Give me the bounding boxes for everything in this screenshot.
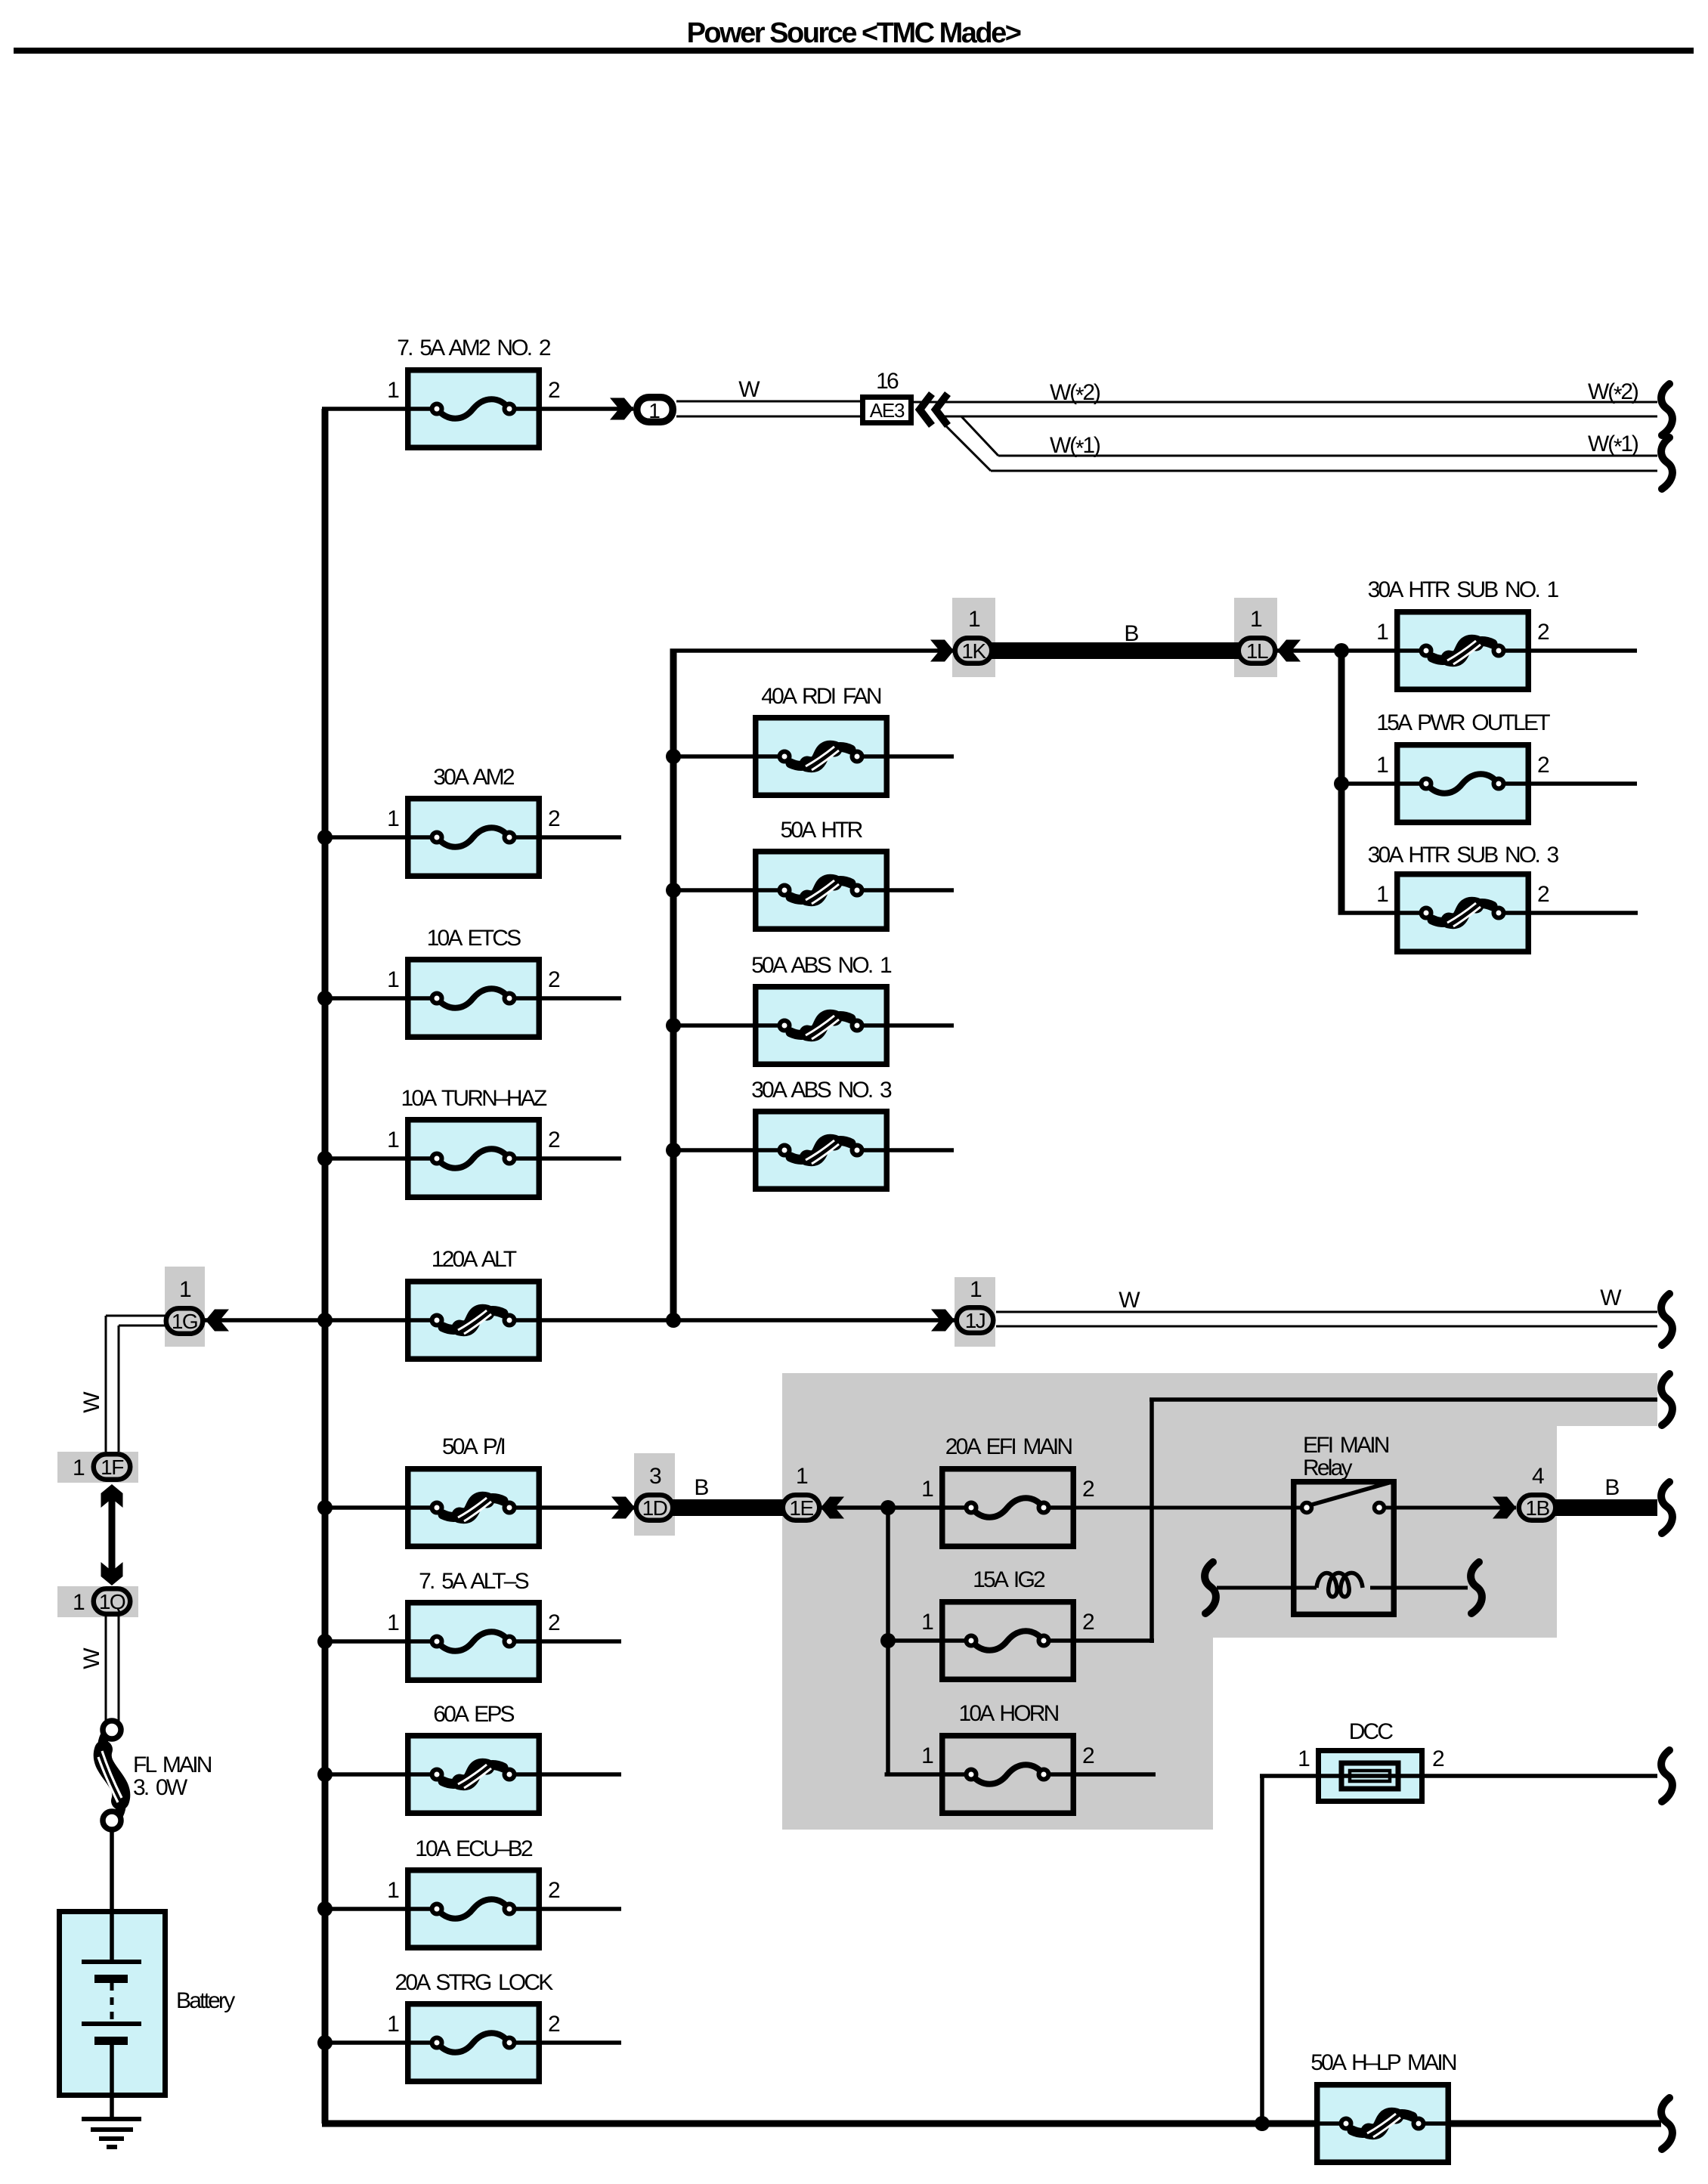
- label 20A EFI MAIN: [945, 1434, 1072, 1459]
- wire trunk to fuse AM2 NO.2 pin 1: [322, 407, 405, 411]
- pin number 1 of 1J: [970, 1277, 982, 1302]
- label 20A STRG LOCK: [395, 1970, 553, 1995]
- pin numbers fuse PWR OUTLET: [1376, 753, 1549, 778]
- svg-text:30A HTR SUB NO. 1: 30A HTR SUB NO. 1: [1368, 577, 1559, 602]
- wire main trunk from battery feed (vertical): [322, 409, 329, 2124]
- svg-text:1D: 1D: [642, 1496, 667, 1520]
- wire fuse 50A ABS NO. 1 pin 2 out: [890, 1023, 954, 1028]
- svg-text:20A EFI MAIN: 20A EFI MAIN: [945, 1434, 1072, 1459]
- pin numbers fuse 30A AM2: [387, 806, 560, 831]
- junction dot trunk at 20A STRG LOCK: [317, 2035, 333, 2050]
- svg-text:1: 1: [387, 2012, 399, 2037]
- pin numbers DCC: [1298, 1746, 1444, 1771]
- svg-text:1K: 1K: [961, 639, 986, 663]
- svg-text:1F: 1F: [101, 1455, 123, 1479]
- battery Battery: [60, 1909, 166, 2119]
- junction connector AE3: [863, 398, 911, 423]
- connector oval 1: [637, 398, 673, 422]
- connector oval 1E: [783, 1495, 820, 1520]
- svg-text:1: 1: [968, 607, 980, 632]
- wire fuse 50A P/I pin 2 to 1D: [542, 1505, 635, 1510]
- connector 1Q pin-number gray box: [57, 1586, 138, 1617]
- arrow out of 1L: [1277, 640, 1301, 662]
- wire fuse AM2 NO.2 pin 2 to connector 1: [542, 407, 633, 411]
- junction dot trunk at 60A EPS: [317, 1767, 333, 1782]
- svg-text:AE3: AE3: [870, 399, 905, 422]
- double arrow between 1F and 1Q: [101, 1484, 123, 1585]
- svg-text:Battery: Battery: [176, 1988, 235, 2013]
- wire fuse 50A HTR pin 2 out: [890, 888, 954, 892]
- continuation symbol bottom bus: [1661, 2098, 1672, 2149]
- wire branch to fuse 10A HORN pin 1: [885, 1772, 940, 1777]
- wire fuse 30A ABS NO. 3 pin 2 out: [890, 1148, 954, 1152]
- wire W double-line 1J to page edge: [996, 1312, 1657, 1326]
- wire 1E to fuse 20A EFI MAIN pin 1: [821, 1505, 939, 1510]
- wire sub-trunk to fuse 15A PWR OUTLET: [1341, 781, 1394, 786]
- svg-text:15A PWR OUTLET: 15A PWR OUTLET: [1376, 710, 1550, 735]
- wire branch to fuse 15A IG2 pin 1: [888, 1638, 939, 1643]
- fuse 20A EFI MAIN: [939, 1469, 1076, 1547]
- svg-text:2: 2: [1537, 620, 1549, 645]
- connector 1L pin-number gray box: [1234, 598, 1277, 677]
- arrow into 1D: [611, 1497, 635, 1519]
- wire fuse 10A TURN–HAZ pin 2 out: [542, 1156, 621, 1161]
- svg-text:1: 1: [1376, 882, 1388, 907]
- continuation symbol B after 1B: [1661, 1482, 1672, 1533]
- svg-text:2: 2: [548, 1128, 560, 1152]
- fuse 10A TURN–HAZ: [405, 1120, 542, 1198]
- fuse 7.5A AM2 NO.2: [405, 370, 542, 448]
- pin numbers fuse IG2: [921, 1610, 1094, 1635]
- wire B thick bar 1D to 1E: [672, 1499, 784, 1516]
- svg-text:1: 1: [970, 1277, 982, 1302]
- fuse 30A HTR SUB NO. 3: [1394, 874, 1531, 952]
- svg-text:2: 2: [548, 967, 560, 992]
- fusible link FL MAIN 3.0W: [98, 1721, 122, 1830]
- connector oval 1B: [1519, 1495, 1556, 1520]
- wire fuse 40A RDI FAN pin 2 out: [890, 754, 954, 759]
- wire B thick bar 1K to 1L: [990, 642, 1239, 659]
- fuse 30A HTR SUB NO. 1: [1394, 612, 1531, 690]
- svg-text:30A AM2: 30A AM2: [433, 765, 515, 790]
- junction dot at PWR OUTLET branch: [1334, 776, 1349, 791]
- svg-text:50A HTR: 50A HTR: [780, 818, 862, 843]
- label 10A TURN–HAZ: [401, 1086, 547, 1111]
- label Battery: [176, 1988, 235, 2013]
- svg-text:W(*2): W(*2): [1050, 380, 1100, 408]
- connector 1K pin-number gray box: [952, 598, 995, 677]
- pin number 1 of 1L: [1250, 607, 1262, 632]
- wire W double-line connector 1 to AE3: [676, 401, 860, 416]
- svg-text:W(*2): W(*2): [1588, 379, 1638, 407]
- label W rotated near FL MAIN: [79, 1647, 104, 1669]
- connector oval 1Q: [94, 1589, 131, 1614]
- wire fuse EFI MAIN pin 2 to relay: [1076, 1506, 1300, 1510]
- continuation symbol IG2 wire: [1661, 1374, 1672, 1425]
- wire trunk to fuse 60A EPS: [322, 1772, 405, 1777]
- svg-text:50A P/I: 50A P/I: [442, 1434, 505, 1459]
- label W(*2) left: [1050, 380, 1100, 408]
- svg-text:2: 2: [548, 1878, 560, 1903]
- svg-text:1: 1: [387, 378, 399, 403]
- svg-text:40A RDI FAN: 40A RDI FAN: [761, 684, 881, 709]
- connector 1G pin-number gray box: [165, 1267, 205, 1347]
- svg-text:2: 2: [1537, 753, 1549, 778]
- svg-text:120A ALT: 120A ALT: [432, 1247, 517, 1272]
- wire trunk to fuse 7. 5A ALT–S: [322, 1639, 405, 1644]
- label 15A IG2: [973, 1567, 1045, 1592]
- wire FL MAIN to battery: [110, 1830, 114, 1909]
- wire trunk to fuse 10A TURN–HAZ: [322, 1156, 405, 1161]
- wire right sub-trunk at HTR fuses (vertical): [1338, 651, 1345, 913]
- pin numbers fuse 10A ETCS: [387, 967, 560, 992]
- junction dot EFI feed: [880, 1500, 896, 1515]
- continuation symbol relay coil left: [1205, 1562, 1216, 1613]
- relay switch contacts and blade: [1302, 1483, 1390, 1513]
- label 40A RDI FAN: [761, 684, 881, 709]
- fuse 10A ETCS: [405, 960, 542, 1038]
- connector 1J pin-number gray box: [955, 1277, 995, 1347]
- wire trunk to fuse 50A P/I: [322, 1505, 405, 1510]
- wire 1L to fuse 30A HTR SUB NO.1: [1277, 648, 1394, 653]
- wire trunk to fuse 10A ETCS: [322, 996, 405, 1001]
- svg-text:1: 1: [73, 1455, 85, 1480]
- svg-text:1: 1: [387, 1128, 399, 1152]
- svg-text:1: 1: [1298, 1746, 1310, 1771]
- wire middle trunk (vertical): [670, 651, 677, 1320]
- svg-text:W(*1): W(*1): [1588, 432, 1638, 459]
- label 120A ALT: [432, 1247, 517, 1272]
- connector 1D pin-number gray box: [634, 1453, 675, 1536]
- svg-text:W: W: [1600, 1285, 1622, 1310]
- connector oval 1K: [955, 638, 992, 664]
- arrow into 1J: [931, 1310, 955, 1332]
- svg-text:1J: 1J: [965, 1309, 986, 1332]
- wire fuse 10A ECU–B2 pin 2 out: [542, 1907, 621, 1911]
- pin number 1 of 1F: [73, 1455, 85, 1480]
- junction dot trunk at 10A TURN–HAZ: [317, 1151, 333, 1166]
- wire bottom bus to 50A H-LP MAIN: [322, 2121, 1661, 2127]
- label EFI MAIN Relay: [1303, 1433, 1389, 1480]
- connector oval 1G: [166, 1308, 203, 1334]
- junction dot middle trunk at 40A RDI FAN: [666, 749, 681, 764]
- svg-text:W: W: [738, 377, 760, 402]
- title rule: [14, 48, 1694, 54]
- svg-text:2: 2: [1432, 1746, 1444, 1771]
- svg-text:7. 5A ALT–S: 7. 5A ALT–S: [419, 1569, 529, 1594]
- arrow out of 1E: [821, 1497, 844, 1519]
- junction dot middle trunk at 50A HTR: [666, 883, 681, 898]
- junction dot DCC at bottom bus: [1255, 2116, 1270, 2131]
- junction dot trunk at 120A ALT: [317, 1313, 333, 1328]
- svg-text:1: 1: [796, 1464, 808, 1489]
- junction dot trunk at 10A ECU–B2: [317, 1901, 333, 1916]
- junction dot middle trunk at 30A ABS NO. 3: [666, 1143, 681, 1158]
- pin number 1 of 1K: [968, 607, 980, 632]
- arrow into 1B: [1493, 1497, 1516, 1519]
- svg-text:16: 16: [876, 369, 899, 394]
- svg-text:W: W: [1119, 1288, 1140, 1313]
- wire sub-trunk to fuse 30A HTR SUB NO.3: [1338, 911, 1395, 915]
- svg-text:1: 1: [921, 1610, 933, 1635]
- fuse 60A EPS: [405, 1736, 542, 1814]
- wire W(*2) double-line to page edge: [914, 402, 1657, 416]
- wire middle trunk to fuse 40A RDI FAN: [673, 754, 753, 759]
- label B after 1B: [1604, 1475, 1619, 1500]
- fuse 30A AM2: [405, 799, 542, 877]
- fuse 7. 5A ALT–S: [405, 1603, 542, 1681]
- junction dot trunk at 50A P/I: [317, 1500, 333, 1515]
- junction dot at HTR sub-trunk top: [1334, 643, 1349, 658]
- svg-text:1E: 1E: [789, 1496, 813, 1520]
- pin number 1 of 1G: [179, 1277, 191, 1302]
- arrow into 1G: [206, 1310, 229, 1332]
- svg-text:10A HORN: 10A HORN: [959, 1701, 1059, 1726]
- connector oval 1F: [94, 1454, 131, 1480]
- fuse 50A H-LP MAIN: [1314, 2085, 1451, 2163]
- junction dot trunk at 10A ETCS: [317, 991, 333, 1006]
- chevron arrows at AE3: [920, 394, 948, 425]
- svg-text:2: 2: [548, 1610, 560, 1635]
- relay coil: [1217, 1573, 1468, 1597]
- label 7. 5A ALT–S: [419, 1569, 529, 1594]
- svg-text:2: 2: [1537, 882, 1549, 907]
- wire relay output to 1B: [1386, 1506, 1516, 1510]
- svg-text:60A EPS: 60A EPS: [433, 1702, 514, 1727]
- ground symbol below battery: [82, 2119, 141, 2147]
- svg-text:10A TURN–HAZ: 10A TURN–HAZ: [401, 1086, 547, 1111]
- pin number 1 of 1Q: [73, 1590, 85, 1615]
- junction dot middle trunk at 50A ABS NO. 1: [666, 1018, 681, 1033]
- continuation symbol DCC wire: [1661, 1750, 1672, 1802]
- svg-text:2: 2: [1082, 1477, 1094, 1502]
- pin number 3 of 1D: [649, 1464, 661, 1489]
- fuse 10A HORN: [939, 1736, 1076, 1814]
- svg-text:7. 5A AM2 NO. 2: 7. 5A AM2 NO. 2: [397, 336, 551, 360]
- svg-text:3. 0W: 3. 0W: [133, 1775, 188, 1800]
- junction dot at IG2 branch: [880, 1633, 896, 1648]
- pin numbers fuse HORN: [921, 1743, 1094, 1768]
- label 7. 5A AM2 NO. 2: [397, 336, 551, 360]
- svg-text:W: W: [79, 1647, 104, 1669]
- fuse 50A P/I: [405, 1469, 542, 1547]
- connector oval 1D: [636, 1495, 673, 1520]
- svg-text:1: 1: [387, 967, 399, 992]
- pin numbers fuse 20A STRG LOCK: [387, 2012, 560, 2037]
- wire middle trunk to fuse 30A ABS NO. 3: [673, 1148, 753, 1152]
- label W after 1J: [1119, 1288, 1140, 1313]
- continuation symbol W(*1): [1661, 438, 1672, 489]
- label W rotated near 1G: [79, 1391, 104, 1413]
- wire middle trunk to fuse 50A HTR: [673, 888, 753, 892]
- svg-text:B: B: [1124, 621, 1138, 646]
- label 30A AM2: [433, 765, 515, 790]
- svg-text:20A STRG LOCK: 20A STRG LOCK: [395, 1970, 553, 1995]
- svg-text:1: 1: [921, 1477, 933, 1502]
- wire through DCC: [1260, 1774, 1657, 1778]
- wire fuse HORN pin 2 out: [1076, 1772, 1156, 1777]
- svg-text:50A H–LP MAIN: 50A H–LP MAIN: [1310, 2050, 1456, 2075]
- label 10A ECU–B2: [415, 1836, 533, 1861]
- svg-text:1: 1: [179, 1277, 191, 1302]
- DCC cartridge element: [1341, 1763, 1398, 1789]
- wire trunk to fuse 20A STRG LOCK: [322, 2040, 405, 2045]
- label 15A PWR OUTLET: [1376, 710, 1550, 735]
- svg-text:1: 1: [1376, 620, 1388, 645]
- continuation symbol W after 1J: [1661, 1294, 1672, 1345]
- fuse 40A RDI FAN: [753, 718, 890, 796]
- label B on 1K-1L bar: [1124, 621, 1138, 646]
- svg-text:B: B: [694, 1475, 708, 1500]
- arrow into 1K: [930, 640, 954, 662]
- svg-text:1L: 1L: [1246, 639, 1268, 663]
- wire DCC feed vertical: [1260, 1776, 1264, 2124]
- wire fuse HTR SUB NO.3 pin 2 out: [1531, 911, 1638, 915]
- svg-text:1: 1: [387, 1610, 399, 1635]
- connector oval 1L: [1239, 638, 1276, 664]
- svg-text:B: B: [1604, 1475, 1619, 1500]
- label FL MAIN: [133, 1752, 212, 1777]
- fuse 15A IG2: [939, 1602, 1076, 1680]
- svg-text:2: 2: [1082, 1743, 1094, 1768]
- svg-text:15A IG2: 15A IG2: [973, 1567, 1045, 1592]
- pin numbers fuse HTR SUB NO.1: [1376, 620, 1549, 645]
- continuation symbol W(*2): [1661, 384, 1672, 435]
- svg-text:1G: 1G: [172, 1310, 197, 1333]
- label 50A P/I: [442, 1434, 505, 1459]
- wire W double-line 1G down to 1F: [106, 1316, 166, 1452]
- wire middle trunk to connector 1K: [670, 648, 955, 653]
- label 30A HTR SUB NO. 3: [1368, 843, 1559, 868]
- wire fuse 60A EPS pin 2 out: [542, 1772, 621, 1777]
- connector 1F pin-number gray box: [57, 1452, 138, 1483]
- svg-text:Relay: Relay: [1303, 1455, 1352, 1480]
- svg-text:2: 2: [1082, 1610, 1094, 1635]
- diode DCC box: [1319, 1751, 1422, 1802]
- pin number 1 of 1E: [796, 1464, 808, 1489]
- svg-text:4: 4: [1532, 1464, 1544, 1489]
- svg-text:1: 1: [73, 1590, 85, 1615]
- label DCC: [1349, 1719, 1394, 1744]
- junction dot middle trunk at ALT wire: [666, 1313, 681, 1328]
- wire fuse PWR OUTLET pin 2 out: [1531, 781, 1637, 786]
- pin numbers fuse EFI MAIN: [921, 1477, 1094, 1502]
- junction dot trunk at 7. 5A ALT–S: [317, 1634, 333, 1649]
- svg-text:W: W: [79, 1391, 104, 1413]
- label 10A HORN: [959, 1701, 1059, 1726]
- label 50A H-LP MAIN: [1310, 2050, 1456, 2075]
- svg-text:1Q: 1Q: [99, 1590, 125, 1613]
- relay EFI MAIN Relay box: [1294, 1482, 1394, 1615]
- wire middle trunk to fuse 50A ABS NO. 1: [673, 1023, 753, 1028]
- fuse 20A STRG LOCK: [405, 2004, 542, 2082]
- label 30A ABS NO. 3: [751, 1078, 892, 1103]
- fuse 10A ECU–B2: [405, 1870, 542, 1948]
- label 16 above AE3: [876, 369, 899, 394]
- svg-text:2: 2: [548, 2012, 560, 2037]
- wire fuse 30A AM2 pin 2 out: [542, 835, 621, 840]
- pin numbers fuse HTR SUB NO.3: [1376, 882, 1549, 907]
- continuation symbol relay coil right: [1471, 1562, 1482, 1613]
- pin numbers fuse 7. 5A ALT–S: [387, 1610, 560, 1635]
- wire trunk to fuse 30A AM2: [322, 835, 405, 840]
- label B on 1D-1E bar: [694, 1475, 708, 1500]
- svg-text:2: 2: [548, 378, 560, 403]
- svg-text:30A ABS NO. 3: 30A ABS NO. 3: [751, 1078, 892, 1103]
- svg-text:2: 2: [548, 806, 560, 831]
- svg-text:10A ECU–B2: 10A ECU–B2: [415, 1836, 533, 1861]
- fuse 120A ALT: [405, 1282, 542, 1360]
- label 50A HTR: [780, 818, 862, 843]
- svg-text:FL MAIN: FL MAIN: [133, 1752, 212, 1777]
- title Power Source <TMC Made>: [687, 17, 1021, 49]
- wire 1G to fuse 120A ALT: [204, 1318, 405, 1322]
- fuse 30A ABS NO. 3: [753, 1112, 890, 1189]
- svg-text:1: 1: [921, 1743, 933, 1768]
- svg-text:1: 1: [648, 399, 661, 422]
- connector oval 1J: [957, 1307, 994, 1333]
- EFI relay block gray background region: [782, 1373, 1657, 1830]
- fuse 50A HTR: [753, 852, 890, 930]
- wire fuse 7. 5A ALT–S pin 2 out: [542, 1639, 621, 1644]
- svg-text:EFI MAIN: EFI MAIN: [1303, 1433, 1389, 1458]
- wire W(*1) double-line to page edge: [991, 456, 1657, 471]
- wire branch diagonals to W(*1): [945, 416, 998, 471]
- wire fuse 120A ALT pin 2 to 1J: [542, 1318, 955, 1322]
- wire trunk to fuse 10A ECU–B2: [322, 1907, 405, 1911]
- label 30A HTR SUB NO. 1: [1368, 577, 1559, 602]
- wire fuse 20A STRG LOCK pin 2 out: [542, 2040, 621, 2045]
- svg-text:DCC: DCC: [1349, 1719, 1394, 1744]
- arrow into connector 1: [610, 398, 633, 420]
- junction dot trunk at 30A AM2: [317, 830, 333, 845]
- label 10A ETCS: [427, 926, 521, 951]
- label 50A ABS NO. 1: [751, 953, 892, 978]
- svg-text:W(*1): W(*1): [1050, 433, 1100, 461]
- svg-text:1B: 1B: [1525, 1496, 1549, 1520]
- wire EFI feed vertical: [886, 1508, 890, 1774]
- fuse 50A ABS NO. 1: [753, 987, 890, 1065]
- svg-text:1: 1: [1376, 753, 1388, 778]
- svg-text:50A ABS NO. 1: 50A ABS NO. 1: [751, 953, 892, 978]
- wire fuse HTR SUB NO.1 pin 2 out: [1531, 648, 1637, 653]
- fuse 15A PWR OUTLET: [1394, 745, 1531, 823]
- svg-text:10A ETCS: 10A ETCS: [427, 926, 521, 951]
- label 3. 0W: [133, 1775, 188, 1800]
- svg-text:1: 1: [387, 1878, 399, 1903]
- label W: [738, 377, 760, 402]
- wire B thick bar 1B to page edge: [1554, 1499, 1657, 1516]
- label W at page edge: [1600, 1285, 1622, 1310]
- label W(*1) right: [1588, 432, 1638, 459]
- pin numbers fuse 10A TURN–HAZ: [387, 1128, 560, 1152]
- label W(*2) right: [1588, 379, 1638, 407]
- svg-text:30A HTR SUB NO. 3: 30A HTR SUB NO. 3: [1368, 843, 1559, 868]
- wire W double-line 1Q down to FL MAIN: [106, 1614, 119, 1722]
- svg-text:1: 1: [387, 806, 399, 831]
- svg-text:Power Source <TMC Made>: Power Source <TMC Made>: [687, 17, 1021, 49]
- svg-text:1: 1: [1250, 607, 1262, 632]
- svg-text:3: 3: [649, 1464, 661, 1489]
- label W(*1) left: [1050, 433, 1100, 461]
- pin numbers fuse 10A ECU–B2: [387, 1878, 560, 1903]
- pin numbers fuse AM2 NO.2: [387, 378, 560, 403]
- pin number 4 of 1B: [1532, 1464, 1544, 1489]
- wire fuse IG2 pin 2 up and right to page edge: [1076, 1400, 1657, 1643]
- wire fuse 10A ETCS pin 2 out: [542, 996, 621, 1001]
- label 60A EPS: [433, 1702, 514, 1727]
